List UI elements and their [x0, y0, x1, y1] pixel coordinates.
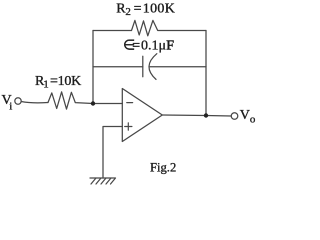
svg-text:R1=10K: R1=10K: [35, 74, 81, 90]
svg-text:Vi: Vi: [2, 93, 13, 113]
svg-text:∈=0.1μF: ∈=0.1μF: [123, 39, 174, 54]
svg-text:Vo: Vo: [240, 108, 256, 126]
svg-text:Fig.2: Fig.2: [150, 160, 176, 174]
svg-text:R2=100K: R2=100K: [116, 1, 175, 18]
